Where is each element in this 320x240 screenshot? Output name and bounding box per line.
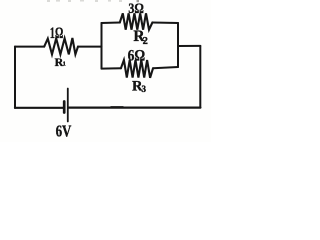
wire overlap stroke on bottom wire — [111, 106, 123, 108]
wire box output to right — [178, 45, 200, 47]
wire bottom rail left segment — [102, 67, 121, 69]
wire R1 to parallel box — [78, 46, 102, 48]
svg-text:1Ω: 1Ω — [50, 25, 64, 42]
node junction left edge of parallel box — [101, 23, 103, 69]
wire bottom left segment — [15, 107, 64, 109]
wire right vertical — [199, 46, 201, 108]
resistor R3 — [121, 60, 153, 78]
resistor R1 — [44, 38, 78, 54]
wire bottom rail right segment — [153, 67, 178, 68]
svg-text:3Ω: 3Ω — [128, 1, 144, 17]
wire top rail left segment — [102, 22, 120, 25]
battery B1 long plate — [67, 89, 69, 122]
wire top rail right segment — [152, 22, 178, 25]
faint cropped text at top edge (scan artifact) — [47, 0, 139, 2]
svg-text:6V: 6V — [56, 121, 72, 140]
wire bottom right segment — [69, 106, 201, 108]
wire right edge of parallel box — [177, 23, 179, 67]
battery B1 short plate — [63, 102, 66, 113]
svg-text:6Ω: 6Ω — [128, 47, 146, 64]
wire top-left horizontal — [15, 46, 44, 48]
wire left vertical — [14, 47, 16, 109]
svg-text:3: 3 — [142, 84, 147, 94]
svg-text:2: 2 — [143, 36, 148, 47]
svg-text:1: 1 — [63, 61, 66, 68]
resistor R2 — [120, 13, 153, 29]
